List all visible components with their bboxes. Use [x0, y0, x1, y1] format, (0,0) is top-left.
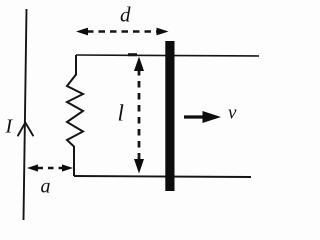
svg-text:a: a	[41, 176, 51, 198]
svg-text:l: l	[118, 101, 124, 126]
svg-text:v: v	[228, 103, 237, 124]
svg-text:I: I	[5, 116, 14, 138]
svg-text:d: d	[120, 3, 131, 27]
